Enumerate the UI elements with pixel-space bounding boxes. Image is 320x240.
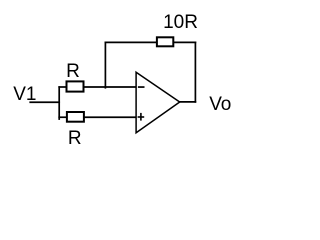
wire to R2 xyxy=(58,116,67,118)
resistor R3 (10R) xyxy=(157,37,173,46)
svg-text:Vo: Vo xyxy=(209,94,231,115)
wire R3 to output branch xyxy=(174,41,196,43)
svg-text:R: R xyxy=(66,61,80,82)
wire op-amp output xyxy=(179,101,196,103)
inverting input marker (minus) xyxy=(138,86,145,88)
wire to R1 xyxy=(58,86,66,88)
op-amp U1 xyxy=(136,72,180,133)
svg-text:V1: V1 xyxy=(13,84,36,105)
wire feedback up from inverting node xyxy=(104,42,106,89)
svg-text:10R: 10R xyxy=(163,12,198,33)
wire feedback top horizontal xyxy=(105,41,157,43)
non-inverting input marker (plus) xyxy=(138,113,145,121)
wire R1 to inverting input xyxy=(84,86,137,88)
wire R2 to non-inverting input xyxy=(84,116,136,118)
svg-text:R: R xyxy=(68,128,82,149)
wire V1 lead xyxy=(29,101,60,103)
resistor R1 xyxy=(67,81,84,91)
wire input splitter vertical xyxy=(58,86,60,120)
resistor R2 xyxy=(67,112,84,122)
wire feedback down to output node xyxy=(194,42,196,103)
